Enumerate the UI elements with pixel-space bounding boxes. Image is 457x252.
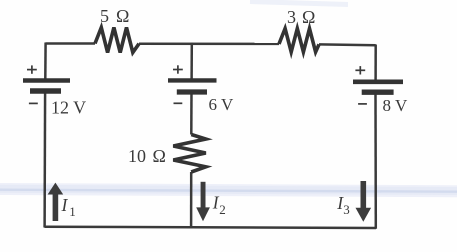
svg-text:5 Ω: 5 Ω [100, 6, 129, 26]
svg-text:I: I [61, 195, 69, 215]
svg-text:3: 3 [343, 202, 350, 217]
svg-text:6 V: 6 V [209, 95, 234, 114]
svg-text:10 Ω: 10 Ω [128, 146, 166, 166]
svg-text:1: 1 [69, 204, 76, 219]
svg-text:8 V: 8 V [383, 96, 408, 115]
svg-text:12 V: 12 V [51, 98, 86, 118]
svg-text:3 Ω: 3 Ω [287, 7, 315, 27]
svg-text:2: 2 [219, 202, 226, 217]
